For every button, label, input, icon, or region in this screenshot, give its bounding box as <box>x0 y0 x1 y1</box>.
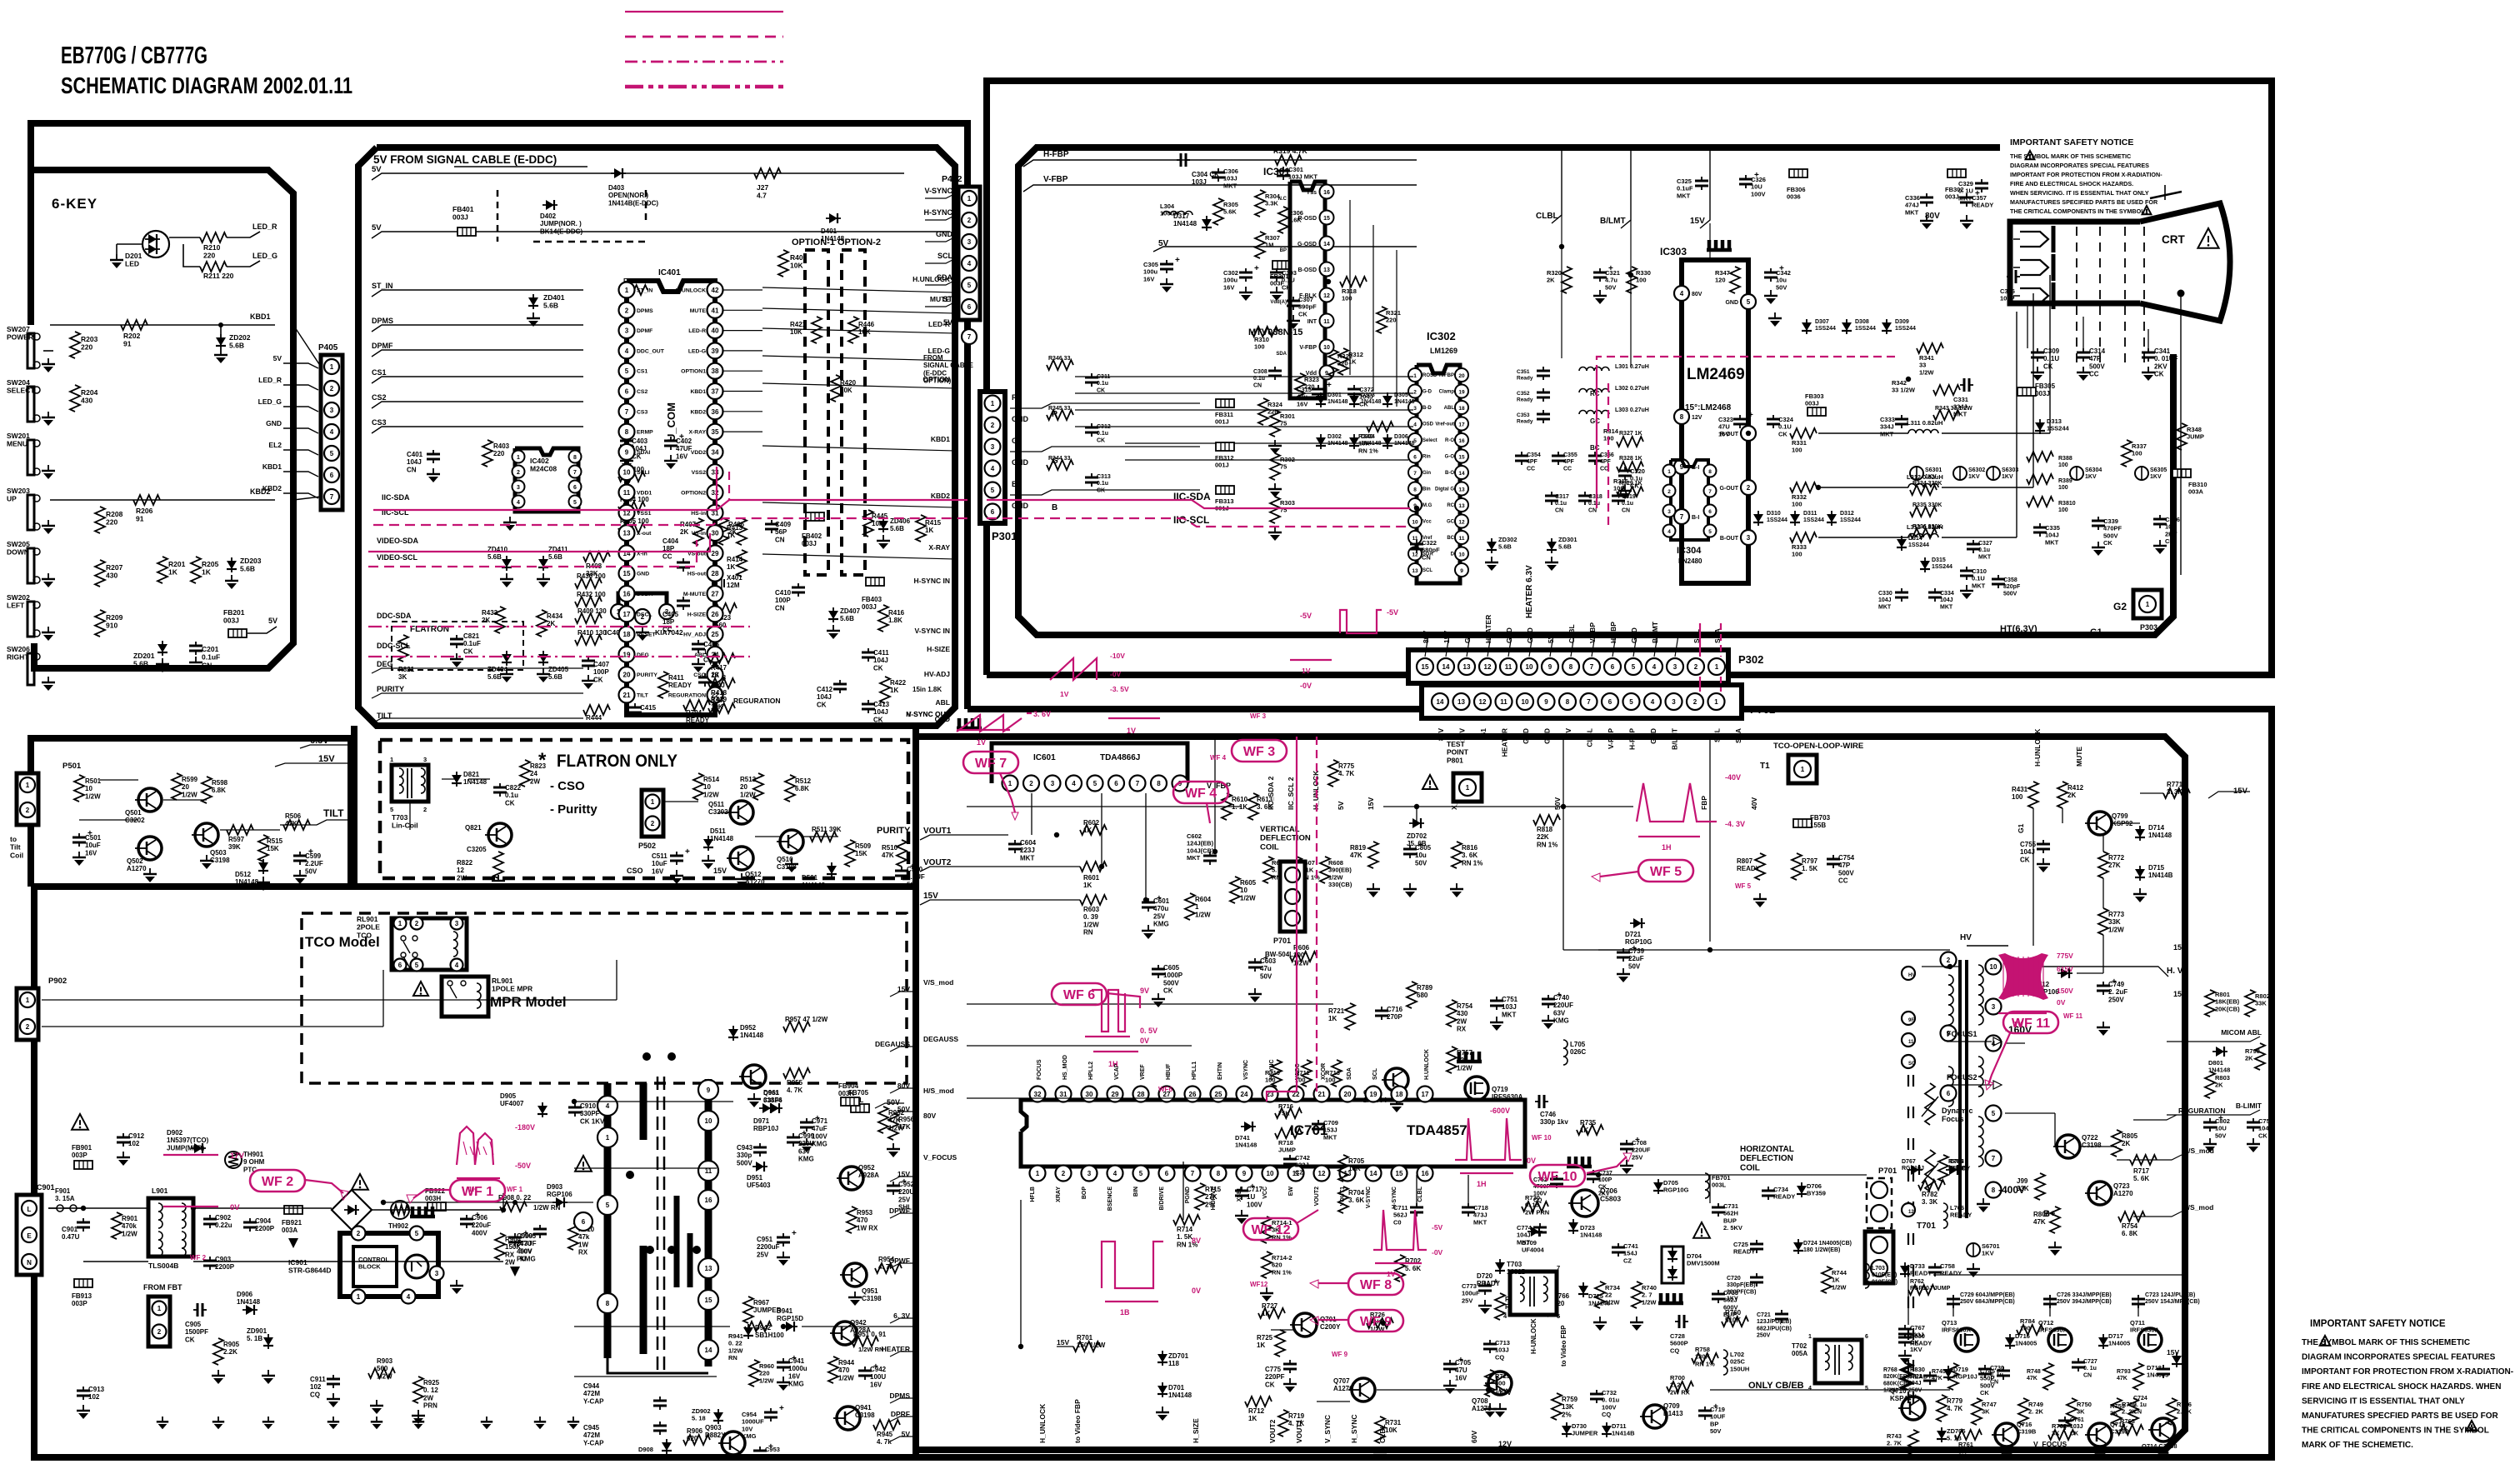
resistors R344 R345 R346 33 <box>1047 360 1073 370</box>
transistor Q903 D882Y <box>722 1432 745 1455</box>
svg-text:C403: C403 <box>632 437 648 445</box>
svg-text:500V: 500V <box>1838 869 1854 877</box>
svg-text:7: 7 <box>330 493 334 501</box>
magenta 1V dimension near P702 <box>1290 659 1332 661</box>
svg-text:75K: 75K <box>1278 1110 1290 1117</box>
svg-text:R414: R414 <box>727 556 743 563</box>
svg-text:R-OUT: R-OUT <box>1720 432 1739 437</box>
svg-text:16: 16 <box>705 1197 712 1204</box>
resistor R512 6.8K <box>785 775 795 802</box>
svg-text:17: 17 <box>1458 422 1465 428</box>
resistor R418 3.9K <box>708 678 735 688</box>
svg-text:25: 25 <box>1215 1091 1222 1098</box>
svg-text:OSD: OSD <box>1422 422 1434 427</box>
svg-text:H/S_mod: H/S_mod <box>923 1087 954 1095</box>
svg-text:100: 100 <box>2058 507 2068 513</box>
resistor R735 1K <box>1577 1125 1603 1135</box>
svg-text:R725: R725 <box>1257 1334 1273 1342</box>
svg-text:1: 1 <box>2146 601 2150 608</box>
svg-text:100u: 100u <box>1223 277 1238 284</box>
svg-text:D: D <box>1451 552 1455 557</box>
svg-text:2. 7: 2. 7 <box>1642 1292 1652 1299</box>
svg-text:R347: R347 <box>1715 269 1730 277</box>
svg-text:R603: R603 <box>1083 906 1100 913</box>
svg-text:R744: R744 <box>1832 1269 1847 1277</box>
capacitor C705 47U 16V <box>1449 1360 1451 1364</box>
svg-text:WF 2: WF 2 <box>262 1175 293 1189</box>
svg-text:WF 4: WF 4 <box>1185 787 1217 801</box>
ferrite FB302 003J <box>1947 169 1966 177</box>
capacitor C805 10u 50V <box>1409 845 1411 849</box>
svg-text:H-UNLOCK: H-UNLOCK <box>676 288 706 294</box>
svg-text:18K(EB): 18K(EB) <box>2215 998 2240 1006</box>
svg-text:Q707: Q707 <box>1333 1377 1350 1385</box>
svg-text:1500PF: 1500PF <box>185 1328 208 1336</box>
svg-text:100: 100 <box>1342 295 1352 302</box>
capacitor C745 550P 500V CK <box>2002 1367 2004 1371</box>
svg-text:R514: R514 <box>703 776 720 783</box>
svg-text:3. 3K: 3. 3K <box>1922 1198 1937 1206</box>
svg-text:38: 38 <box>712 367 719 375</box>
capacitor C511 10uF 16V <box>676 852 677 856</box>
resistor R925 0.12 2W PRN <box>413 1377 423 1403</box>
svg-text:3K: 3K <box>2120 1425 2128 1432</box>
svg-text:30: 30 <box>1086 1091 1093 1098</box>
svg-text:47UF: 47UF <box>520 1240 537 1247</box>
svg-text:CK: CK <box>2103 539 2112 547</box>
svg-text:P501: P501 <box>62 762 82 771</box>
magenta -5V pulse near P302 <box>1340 610 1382 633</box>
svg-text:Clamp: Clamp <box>1439 390 1455 395</box>
svg-text:R345 33: R345 33 <box>1048 406 1071 412</box>
svg-text:R801: R801 <box>2215 991 2230 998</box>
svg-text:4: 4 <box>455 962 459 969</box>
svg-text:F901: F901 <box>55 1187 71 1195</box>
svg-text:1/2W: 1/2W <box>85 792 101 800</box>
transistor Q709 D1413 <box>1643 1405 1667 1428</box>
svg-text:470: 470 <box>838 1367 850 1374</box>
transistor Q501 C3202 <box>138 788 162 812</box>
resistor R420 10K <box>831 375 841 402</box>
resistor J27 4.7 <box>754 168 781 178</box>
wire ST_IN <box>372 290 583 297</box>
IC601 TDA4866J vertical amp <box>957 727 982 731</box>
svg-text:223J: 223J <box>1020 847 1035 854</box>
resistors R714-1 3K R714-2 620 <box>1262 1217 1272 1243</box>
resistor R908 0.22 1/2W RN <box>500 1202 527 1212</box>
wire stub from 6KEY to P405 <box>293 325 321 367</box>
svg-text:D903: D903 <box>547 1183 563 1191</box>
svg-text:SERVICING IT IS ESSENTIA: SERVICING IT IS ESSENTIAL THAT ONLY <box>2302 1397 2465 1406</box>
svg-text:C317: C317 <box>1555 494 1569 500</box>
resistor R430 100 <box>575 578 602 588</box>
transistor Q722 C3198 <box>2057 1135 2080 1158</box>
svg-text:18: 18 <box>1396 1091 1403 1098</box>
svg-text:R717: R717 <box>2133 1167 2150 1175</box>
svg-text:D306: D306 <box>1394 434 1408 440</box>
svg-text:010E(CB): 010E(CB) <box>1872 1279 1897 1285</box>
MOSFET Q712 IRFS630A with D717 <box>2048 1328 2072 1352</box>
svg-text:L703: L703 <box>1872 1266 1885 1272</box>
svg-text:SDA: SDA <box>937 273 953 282</box>
crystal X401 12M <box>712 579 713 587</box>
svg-text:D201: D201 <box>125 252 142 260</box>
svg-text:IC901: IC901 <box>288 1258 307 1267</box>
svg-text:1/2W: 1/2W <box>1083 921 1099 928</box>
mosfet Q719 IRFS630A <box>1457 1060 1482 1064</box>
capacitor C912 102 <box>122 1133 124 1137</box>
svg-text:3: 3 <box>435 1270 439 1277</box>
svg-text:5: 5 <box>1557 1312 1560 1320</box>
wire 5V <box>247 627 277 633</box>
transformer T702 005A <box>1815 1340 1862 1383</box>
svg-text:R509: R509 <box>855 842 872 850</box>
svg-text:R327 1K: R327 1K <box>1619 431 1642 437</box>
svg-text:10: 10 <box>1990 963 1997 971</box>
svg-text:1K: 1K <box>1328 1015 1337 1022</box>
svg-text:PURITY: PURITY <box>637 672 657 678</box>
svg-text:R211 220: R211 220 <box>203 272 234 280</box>
svg-text:IIC-SDA: IIC-SDA <box>382 493 410 502</box>
svg-text:3. 3K: 3. 3K <box>2167 788 2182 796</box>
svg-text:V-SYNC IN: V-SYNC IN <box>914 627 950 635</box>
svg-text:MKT: MKT <box>1502 1011 1516 1018</box>
svg-text:820K(EB): 820K(EB) <box>1883 1374 1909 1380</box>
svg-text:C402: C402 <box>676 437 692 445</box>
resistor R434 2K <box>537 610 547 637</box>
svg-text:C711: C711 <box>1393 1204 1408 1212</box>
svg-text:SIGNAL CABLE: SIGNAL CABLE <box>923 362 974 369</box>
svg-text:C758: C758 <box>1940 1262 1955 1270</box>
svg-text:C942: C942 <box>870 1366 887 1373</box>
svg-text:C750: C750 <box>2258 1117 2273 1125</box>
transistor Q707 A1270 <box>1352 1378 1375 1402</box>
svg-text:WF 11: WF 11 <box>2063 1012 2083 1020</box>
svg-text:C341: C341 <box>2154 347 2171 355</box>
svg-text:1: 1 <box>625 287 629 294</box>
svg-text:100U: 100U <box>765 1453 780 1461</box>
resistor R304 3.3K <box>1255 190 1265 217</box>
svg-text:R411: R411 <box>668 674 684 682</box>
resistor R208 220 <box>95 507 105 533</box>
svg-text:123J/PU(EB): 123J/PU(EB) <box>1757 1319 1792 1325</box>
svg-text:FB922: FB922 <box>425 1187 446 1195</box>
svg-text:CK: CK <box>505 799 515 807</box>
svg-text:R772: R772 <box>2108 854 2125 862</box>
capacitor C830 READY <box>1904 1333 1906 1337</box>
svg-text:FB312: FB312 <box>1215 454 1234 462</box>
resistor R802 33K <box>2245 990 2255 1017</box>
flyback top pins to HV <box>1902 967 1915 980</box>
capacitor C911 102 CQ <box>332 1375 334 1379</box>
diode D721 RGP10G <box>1630 922 1645 924</box>
svg-text:0. 01u: 0. 01u <box>1602 1397 1620 1404</box>
svg-text:R784: R784 <box>2020 1317 2036 1325</box>
svg-text:0.1u: 0.1u <box>1097 431 1108 437</box>
svg-text:(E-DDC: (E-DDC <box>923 369 947 377</box>
svg-text:L: L <box>27 1206 32 1213</box>
svg-text:25V: 25V <box>898 1196 911 1203</box>
svg-text:CK: CK <box>463 647 473 655</box>
transformer T901 core dashed lines <box>657 1077 659 1371</box>
svg-text:0.1U: 0.1U <box>1972 575 1985 582</box>
svg-text:005A: 005A <box>1792 1350 1807 1357</box>
svg-text:2: 2 <box>1667 489 1671 495</box>
svg-text:20: 20 <box>740 783 747 791</box>
svg-text:10: 10 <box>1240 887 1247 894</box>
resistor R731 10K <box>1375 1417 1385 1443</box>
svg-text:C746: C746 <box>1540 1111 1557 1118</box>
svg-text:27: 27 <box>712 591 719 598</box>
capacitor C758 READY <box>1934 1263 1936 1267</box>
svg-text:L901: L901 <box>152 1187 168 1195</box>
svg-text:100: 100 <box>1254 343 1265 351</box>
svg-text:C729 604J/MPP(EB): C729 604J/MPP(EB) <box>1960 1292 2015 1298</box>
svg-text:D709: D709 <box>1522 1239 1537 1247</box>
resistor R967 JUMPER <box>743 1297 753 1323</box>
svg-text:4: 4 <box>1808 1386 1812 1392</box>
svg-text:100V: 100V <box>1602 1403 1617 1411</box>
capacitor C903 2200P <box>209 1257 211 1261</box>
svg-text:5V: 5V <box>1337 801 1345 810</box>
ferrites FB311 FB312 FB313 001J <box>1216 399 1234 407</box>
svg-text:FBP: FBP <box>1700 796 1708 810</box>
svg-text:L302 0.27uH: L302 0.27uH <box>1615 386 1649 392</box>
svg-text:2%: 2% <box>1205 1201 1215 1208</box>
svg-text:R601: R601 <box>1083 874 1100 882</box>
svg-text:1/2W: 1/2W <box>1328 873 1343 881</box>
svg-text:C951: C951 <box>757 1236 773 1243</box>
svg-text:2W PRN: 2W PRN <box>1525 1208 1549 1216</box>
svg-text:S6701: S6701 <box>1982 1242 2000 1250</box>
svg-text:2K: 2K <box>1547 277 1555 284</box>
svg-text:16V: 16V <box>652 867 664 875</box>
svg-text:KBD1: KBD1 <box>250 312 271 321</box>
svg-text:R597: R597 <box>228 836 245 843</box>
svg-text:BUP: BUP <box>1723 1217 1737 1224</box>
svg-text:16V: 16V <box>788 1372 801 1380</box>
svg-text:FB913: FB913 <box>72 1292 92 1300</box>
svg-text:- Puritty: - Puritty <box>550 802 597 817</box>
svg-text:2: 2 <box>1694 663 1698 671</box>
power wires <box>48 1207 83 1209</box>
resistor R944 470 1/2W <box>828 1357 838 1383</box>
resistors R734 22 R740 2.7 <box>1595 1282 1605 1308</box>
svg-text:1/2W: 1/2W <box>1832 1283 1847 1291</box>
svg-text:1W RX: 1W RX <box>857 1224 878 1232</box>
svg-text:C405: C405 <box>662 611 679 618</box>
ferrite FB904 003K <box>841 1097 859 1106</box>
resistor R307 1M <box>1255 232 1265 258</box>
svg-text:CN: CN <box>1422 553 1431 561</box>
wires from video box down to P302 <box>1425 635 1428 657</box>
svg-text:D906: D906 <box>237 1291 253 1298</box>
svg-text:Q511: Q511 <box>708 801 725 808</box>
svg-text:D315: D315 <box>1932 557 1946 563</box>
svg-text:R775: R775 <box>1338 762 1355 770</box>
resistor R719 4.7K <box>1278 1410 1288 1437</box>
svg-text:H_UNLOCK: H_UNLOCK <box>1038 1403 1047 1443</box>
legend dashed magenta line <box>625 36 783 38</box>
svg-text:0. 12: 0. 12 <box>423 1387 438 1394</box>
svg-text:3K: 3K <box>1982 1408 1990 1416</box>
svg-text:MKT: MKT <box>1187 854 1201 862</box>
driver transformer T703 1001D <box>1510 1272 1557 1315</box>
svg-text:READY: READY <box>1972 202 1993 209</box>
svg-text:R945: R945 <box>877 1431 893 1438</box>
diode D719 RGP10J <box>1947 1366 1949 1381</box>
svg-text:DOWN: DOWN <box>7 548 29 557</box>
capacitor C342 10u 50V <box>1770 268 1772 272</box>
svg-text:1KV: 1KV <box>2150 474 2162 480</box>
svg-text:4. 7K: 4. 7K <box>787 1087 802 1094</box>
svg-text:CK: CK <box>817 701 827 708</box>
svg-text:Q501: Q501 <box>125 809 142 817</box>
svg-text:3: 3 <box>1087 1170 1092 1177</box>
svg-text:X-out: X-out <box>637 531 652 537</box>
svg-text:1N4148: 1N4148 <box>235 878 259 886</box>
svg-text:P302: P302 <box>1738 653 1763 666</box>
svg-text:003L: 003L <box>1712 1182 1727 1189</box>
relay RL901 1POLE MPR <box>413 982 428 996</box>
svg-text:R598: R598 <box>212 779 228 787</box>
svg-text:TCO: TCO <box>357 931 372 939</box>
resistor R605 10 1/2W <box>1230 877 1240 903</box>
connector P701 vertical <box>1280 862 1305 932</box>
resistor R957 47 1/2W <box>783 1022 810 1032</box>
svg-text:R713: R713 <box>1325 1069 1340 1077</box>
svg-text:9F: 9F <box>1908 1018 1914 1023</box>
svg-text:XCOR: XCOR <box>1321 1063 1327 1080</box>
svg-text:39K: 39K <box>228 843 241 851</box>
svg-text:16V: 16V <box>1143 275 1154 282</box>
svg-text:2: 2 <box>330 385 334 392</box>
svg-text:DPMS: DPMS <box>372 317 393 325</box>
svg-text:+: + <box>1327 381 1332 390</box>
svg-text:C319B: C319B <box>2017 1428 2037 1436</box>
svg-text:HFLB: HFLB <box>1030 1187 1036 1202</box>
svg-text:47k: 47k <box>578 1233 590 1241</box>
resistor R714 1.5K RN 1% <box>1173 1215 1200 1225</box>
diode D952 1N4148 <box>732 1026 734 1041</box>
svg-text:0. 39: 0. 39 <box>1083 913 1098 921</box>
svg-text:UP: UP <box>7 495 17 503</box>
resistor R323 220 <box>1295 373 1305 400</box>
svg-text:15: 15 <box>1422 663 1429 671</box>
svg-text:1. 5K: 1. 5K <box>1802 865 1817 872</box>
diode D720 READY <box>1499 1259 1501 1274</box>
svg-text:R314: R314 <box>1603 427 1619 435</box>
svg-text:6: 6 <box>1608 698 1612 706</box>
svg-text:C334: C334 <box>1940 591 1954 597</box>
resistor R414 1K <box>737 550 747 577</box>
svg-text:JUMP: JUMP <box>1950 1166 1967 1172</box>
svg-text:MPR Model: MPR Model <box>490 994 567 1010</box>
svg-text:1K: 1K <box>1580 1127 1588 1134</box>
svg-text:SB1H100: SB1H100 <box>755 1332 784 1339</box>
svg-text:1K: 1K <box>168 568 178 577</box>
capacitor C954 1000UF 10V KMG <box>770 1408 772 1412</box>
svg-text:C3205: C3205 <box>467 846 487 853</box>
svg-text:-600V: -600V <box>1490 1107 1510 1115</box>
svg-text:22uF: 22uF <box>1628 955 1644 962</box>
resistor R416 1.8K <box>878 605 888 632</box>
svg-text:118: 118 <box>1168 1360 1179 1367</box>
svg-text:620: 620 <box>687 1435 698 1442</box>
resistor R764 100 <box>2017 1325 2043 1335</box>
resistor R509 15K <box>845 840 855 867</box>
wire V-FBP <box>1023 185 1417 192</box>
capacitor C408 104J CK <box>704 673 706 677</box>
transistor Q821 C3205 <box>488 823 512 847</box>
resistor R204 430 <box>70 385 80 412</box>
svg-text:CN: CN <box>1588 507 1597 513</box>
svg-text:15V: 15V <box>2173 943 2187 952</box>
caps C711 562J C718 473J <box>1416 1203 1417 1207</box>
svg-text:D971: D971 <box>753 1117 770 1125</box>
IC403 KIA7042 reset ic <box>618 593 667 605</box>
svg-text:R729: R729 <box>1495 1372 1510 1380</box>
capacitor C721 123J/PU(EB) 682J/PU(CB) 250V <box>1781 1310 1782 1314</box>
svg-text:RN: RN <box>728 1354 737 1362</box>
svg-text:104J(CB): 104J(CB) <box>1187 847 1214 854</box>
svg-text:1N4148: 1N4148 <box>1173 220 1197 227</box>
svg-text:HEATER 6.3V: HEATER 6.3V <box>1525 565 1534 618</box>
svg-text:HSYNC: HSYNC <box>1269 1059 1275 1080</box>
svg-text:1/2W: 1/2W <box>1605 1298 1620 1306</box>
capacitor C201 0.1uF CN <box>195 642 197 646</box>
resistor R906 620 <box>683 1435 710 1445</box>
resistor R610 1.1K <box>1222 793 1232 820</box>
ferrite FB303 003J <box>1807 407 1826 416</box>
svg-text:8: 8 <box>1680 413 1684 421</box>
svg-text:R511 39K: R511 39K <box>812 826 842 833</box>
ferrite bead FB201 003J <box>228 629 247 637</box>
svg-text:MKT: MKT <box>1677 192 1691 199</box>
ferrite FB921 003A <box>284 1206 302 1214</box>
resistor R758 130K RN 1% <box>1692 1353 1718 1363</box>
svg-text:HV_ADJ: HV_ADJ <box>683 632 706 638</box>
diode D501 1N4148 <box>831 862 832 877</box>
svg-text:10: 10 <box>1323 345 1330 351</box>
svg-text:D716: D716 <box>2015 1332 2030 1340</box>
svg-text:BC: BC <box>1447 536 1454 541</box>
svg-text:6: 6 <box>967 303 972 311</box>
svg-text:LED-G: LED-G <box>688 348 706 354</box>
svg-text:POINT: POINT <box>1447 748 1469 757</box>
svg-text:CN: CN <box>1990 1379 1998 1385</box>
svg-text:C308: C308 <box>1253 369 1267 375</box>
svg-text:C720: C720 <box>1727 1276 1741 1282</box>
resistor R211 220 <box>200 262 227 272</box>
svg-text:103J: 103J <box>1502 1003 1517 1011</box>
svg-text:C749: C749 <box>2108 981 2125 988</box>
svg-text:1SS244: 1SS244 <box>1815 326 1836 332</box>
coils L301 L302 L303 0.27uH <box>1579 367 1587 371</box>
svg-text:562H: 562H <box>1723 1210 1738 1217</box>
svg-text:CN: CN <box>775 604 785 612</box>
resistor R419 10K <box>708 703 735 713</box>
resistor R206 91 <box>133 495 160 505</box>
svg-text:D302: D302 <box>1327 434 1342 440</box>
svg-text:1/2W: 1/2W <box>1919 368 1934 376</box>
svg-text:3. 6K: 3. 6K <box>1462 852 1477 859</box>
svg-text:103J: 103J <box>1192 178 1207 186</box>
svg-text:910: 910 <box>106 622 117 630</box>
svg-text:Vref-out: Vref-out <box>1435 422 1454 427</box>
waveform label WF 3 <box>1232 740 1287 762</box>
svg-text:1/2W: 1/2W <box>377 1372 392 1380</box>
